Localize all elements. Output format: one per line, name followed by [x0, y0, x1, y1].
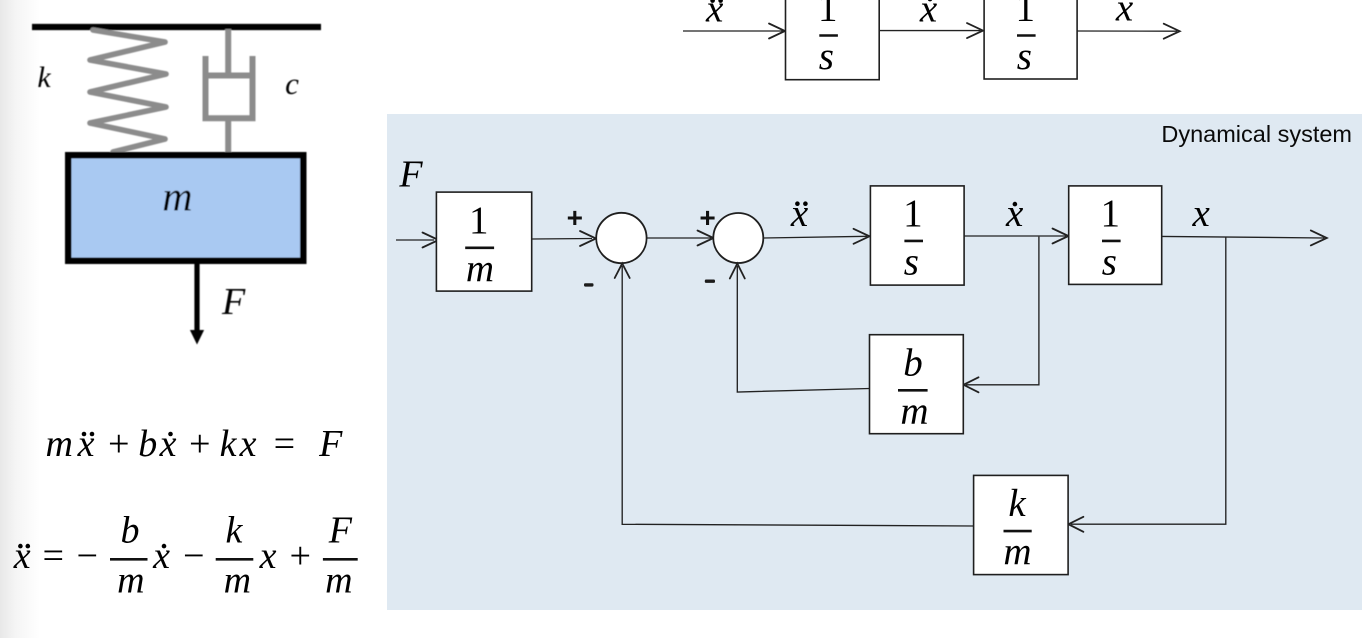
wire: output x: [1162, 236, 1324, 238]
wire: input F: [396, 239, 434, 241]
wire: xdd into integrator A: [683, 30, 783, 32]
svg-text:−: −: [181, 535, 207, 577]
wire: sum1 to sum2: [647, 237, 711, 239]
svg-text:k: k: [1008, 482, 1026, 525]
svg-text:=: =: [271, 423, 297, 465]
svg-text:m: m: [1003, 531, 1031, 574]
force arrow F: [194, 264, 199, 331]
damper cup: [206, 56, 253, 118]
svg-text:+: +: [287, 535, 313, 577]
dynamical system panel: [387, 114, 1362, 610]
svg-text:x: x: [1005, 192, 1024, 235]
svg-text:Dynamical system: Dynamical system: [1161, 121, 1352, 147]
svg-text:m: m: [117, 559, 144, 601]
svg-text:1: 1: [1101, 192, 1121, 235]
svg-text:c: c: [285, 66, 299, 101]
damper bottom rod: [225, 118, 231, 152]
fraction k/m: [216, 558, 254, 561]
svg-text:x: x: [705, 0, 724, 30]
svg-text:s: s: [904, 240, 919, 283]
svg-text:1: 1: [1016, 0, 1036, 30]
spring k: [90, 30, 166, 152]
minus sign (sum 2): [705, 280, 715, 283]
svg-text:b: b: [138, 423, 157, 465]
summing junction 1: [596, 213, 646, 263]
svg-text:+: +: [187, 423, 213, 465]
branch: x down to k/m: [1071, 238, 1226, 525]
svg-text:x: x: [1192, 192, 1211, 235]
wire: integrator1 to integrator2 (xd): [964, 235, 1066, 237]
svg-text:m: m: [162, 175, 192, 221]
svg-text:k: k: [225, 509, 243, 551]
integrator A box 1/s: [786, 0, 880, 80]
svg-text:s: s: [819, 35, 834, 78]
gain block b/m: [870, 335, 964, 434]
wire: sum2 to integrator 1: [763, 236, 867, 238]
wire: 1/m to summing junction 1: [532, 238, 592, 241]
wire: x output (top): [1077, 30, 1177, 32]
integrator B box 1/s: [984, 0, 1077, 79]
gain block k/m: [974, 475, 1069, 574]
svg-text:x: x: [152, 535, 170, 577]
svg-text:1: 1: [818, 0, 838, 30]
wire: k/m output to sum1: [622, 266, 973, 526]
svg-text:m: m: [224, 559, 251, 601]
svg-text:m: m: [45, 423, 72, 465]
ceiling bar: [32, 24, 321, 30]
svg-text:b: b: [121, 509, 140, 551]
svg-text:k: k: [37, 61, 51, 94]
svg-text:1: 1: [903, 192, 923, 235]
svg-text:+: +: [699, 202, 715, 233]
summing junction 2: [713, 213, 763, 263]
svg-text:x: x: [259, 535, 277, 577]
svg-text:F: F: [398, 154, 423, 196]
svg-text:x: x: [790, 192, 809, 235]
svg-text:1: 1: [469, 199, 489, 242]
svg-text:+: +: [567, 202, 583, 233]
fraction b/m: [110, 558, 148, 561]
minus sign (sum 1): [584, 283, 594, 286]
svg-text:m: m: [325, 559, 352, 601]
svg-text:m: m: [900, 390, 928, 433]
svg-text:s: s: [1017, 35, 1032, 78]
svg-text:m: m: [466, 247, 494, 290]
fraction F/m: [323, 558, 358, 561]
svg-text:b: b: [903, 341, 923, 384]
wire: xd between integrators (top): [879, 30, 980, 32]
integrator 1 box 1/s: [870, 186, 964, 285]
svg-text:x: x: [13, 535, 31, 577]
mass block m: [68, 155, 303, 261]
svg-text:F: F: [221, 281, 246, 323]
damper piston plate: [206, 73, 253, 79]
svg-text:s: s: [1102, 240, 1117, 283]
svg-text:x: x: [159, 423, 177, 465]
svg-text:x: x: [1115, 0, 1134, 30]
svg-text:F: F: [328, 509, 353, 551]
svg-text:x: x: [919, 0, 938, 30]
integrator 2 box 1/s: [1069, 186, 1162, 285]
svg-text:=: =: [40, 535, 66, 577]
svg-text:F: F: [318, 423, 343, 465]
wire: b/m output to sum2: [737, 266, 869, 392]
svg-text:+: +: [106, 423, 132, 465]
svg-text:x: x: [239, 423, 257, 465]
damper top rod: [225, 29, 231, 76]
svg-text:−: −: [74, 535, 100, 577]
svg-text:x: x: [77, 423, 95, 465]
gain block 1/m: [436, 192, 531, 291]
svg-text:k: k: [220, 423, 238, 465]
branch: xd down to b/m: [966, 237, 1039, 385]
